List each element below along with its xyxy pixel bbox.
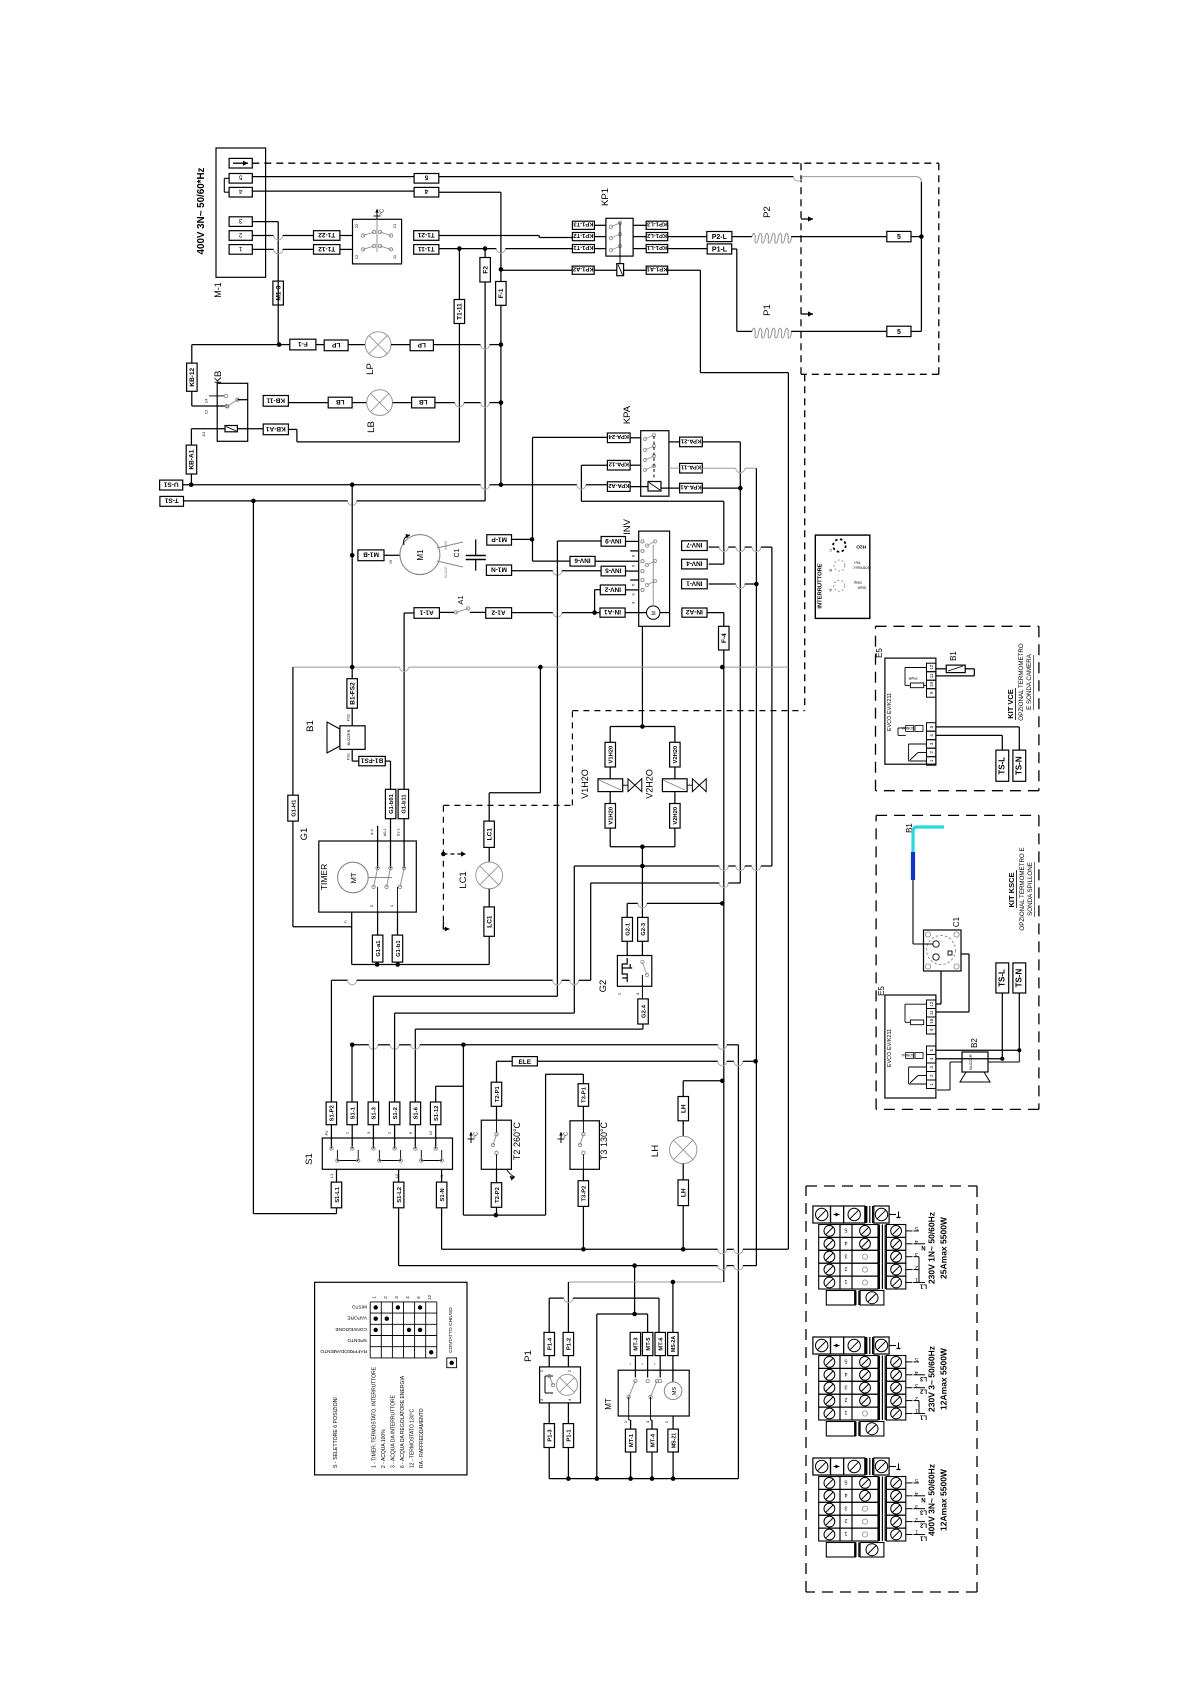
- svg-text:S - SELETTORE 6 POSIZIONI: S - SELETTORE 6 POSIZIONI: [333, 1397, 339, 1468]
- svg-text:OPZIONAL TERMOMETRO: OPZIONAL TERMOMETRO: [1018, 643, 1025, 721]
- svg-text:400V 3N~ 50/60Hz: 400V 3N~ 50/60Hz: [927, 1464, 937, 1536]
- svg-text:EVCO EV/K211: EVCO EV/K211: [887, 1029, 893, 1067]
- svg-text:MS: MS: [672, 1387, 678, 1396]
- svg-text:4: 4: [915, 1490, 918, 1496]
- svg-text:C1: C1: [454, 548, 461, 557]
- svg-text:°C: °C: [474, 1132, 480, 1138]
- svg-text:12: 12: [427, 1295, 432, 1301]
- svg-text:3: 3: [239, 217, 243, 224]
- svg-text:F2: F2: [482, 266, 489, 274]
- svg-text:KP1: KP1: [600, 188, 611, 206]
- svg-text:N: N: [921, 1496, 925, 1502]
- svg-text:2: 2: [915, 1395, 918, 1401]
- svg-text:S1: S1: [304, 1153, 315, 1165]
- svg-text:5: 5: [239, 174, 243, 181]
- svg-text:B1-FS1: B1-FS1: [360, 757, 383, 764]
- svg-text:FS1: FS1: [346, 753, 350, 760]
- svg-text:2: 2: [239, 231, 243, 238]
- svg-text:4: 4: [844, 1239, 847, 1245]
- svg-text:M-1: M-1: [213, 282, 223, 298]
- svg-text:TS-N: TS-N: [1015, 756, 1024, 775]
- svg-text:1: 1: [915, 1529, 918, 1535]
- svg-text:12: 12: [428, 1130, 433, 1135]
- svg-text:21: 21: [392, 223, 397, 228]
- svg-text:100%sec: 100%sec: [853, 566, 869, 571]
- svg-text:b0-1: b0-1: [383, 828, 387, 836]
- svg-text:KP1-L3: KP1-L3: [646, 221, 667, 227]
- svg-text:U-S1: U-S1: [163, 480, 178, 487]
- svg-text:KP1-L1: KP1-L1: [646, 244, 667, 250]
- svg-text:G2: G2: [598, 980, 609, 993]
- svg-text:3: 3: [915, 1382, 918, 1388]
- svg-text:INV-9: INV-9: [605, 537, 622, 544]
- svg-text:11: 11: [929, 673, 934, 678]
- svg-text:S1-12: S1-12: [434, 1106, 440, 1121]
- svg-text:3: 3: [844, 1504, 847, 1510]
- svg-text:CONTATTO CHIUSO: CONTATTO CHIUSO: [448, 1307, 454, 1353]
- svg-text:5: 5: [844, 1227, 847, 1233]
- svg-text:ELE: ELE: [518, 1059, 531, 1066]
- svg-text:12: 12: [203, 409, 208, 414]
- svg-text:12Amax 5500W: 12Amax 5500W: [939, 1468, 949, 1531]
- svg-text:P1-2: P1-2: [567, 1338, 573, 1350]
- svg-text:B2: B2: [970, 1038, 979, 1048]
- svg-text:T1-21: T1-21: [417, 231, 434, 238]
- svg-text:KB-A1: KB-A1: [189, 449, 196, 469]
- svg-text:MT: MT: [349, 872, 358, 883]
- svg-text:CONVEZIONE: CONVEZIONE: [335, 1326, 367, 1332]
- svg-text:Tan: Tan: [854, 561, 860, 566]
- svg-text:F-4: F-4: [721, 633, 728, 643]
- svg-text:KB-11: KB-11: [266, 396, 285, 403]
- svg-text:INV-1: INV-1: [686, 579, 703, 586]
- svg-text:T3 130°C: T3 130°C: [599, 1121, 609, 1160]
- svg-text:T2 260°C: T2 260°C: [512, 1121, 522, 1160]
- svg-text:G1: G1: [299, 828, 310, 841]
- svg-text:LP: LP: [365, 363, 376, 375]
- svg-text:S1-3: S1-3: [372, 1106, 378, 1119]
- svg-text:1: 1: [844, 1409, 847, 1415]
- svg-text:P1-1: P1-1: [567, 1429, 573, 1442]
- svg-text:°C: °C: [564, 1132, 570, 1138]
- svg-text:S1-L2: S1-L2: [397, 1187, 403, 1203]
- svg-text:MT-4: MT-4: [650, 1433, 656, 1447]
- svg-text:RA - RAFFREDDAMENTO: RA - RAFFREDDAMENTO: [419, 1408, 425, 1468]
- svg-text:KPA-12: KPA-12: [609, 461, 629, 467]
- svg-text:KP1-T3: KP1-T3: [573, 221, 594, 227]
- svg-text:TS-N: TS-N: [1015, 968, 1024, 987]
- svg-text:MS-2A: MS-2A: [671, 1336, 677, 1352]
- svg-text:A: A: [829, 588, 832, 593]
- svg-text:S1-P2: S1-P2: [330, 1105, 336, 1121]
- svg-text:PWR: PWR: [908, 676, 917, 680]
- svg-text:G2-1: G2-1: [626, 922, 632, 936]
- svg-text:5: 5: [844, 1479, 847, 1485]
- svg-text:P1: P1: [523, 1350, 534, 1362]
- svg-text:V1H2O: V1H2O: [580, 769, 590, 799]
- svg-text:KP1-T2: KP1-T2: [573, 232, 593, 238]
- svg-text:12: 12: [929, 664, 934, 670]
- svg-text:T3-P2: T3-P2: [582, 1186, 588, 1202]
- svg-text:V2H20: V2H20: [673, 746, 679, 764]
- svg-text:KPA-11: KPA-11: [680, 464, 701, 470]
- svg-text:B1: B1: [305, 720, 316, 732]
- svg-text:INV-6: INV-6: [574, 557, 591, 564]
- svg-text:MISTO: MISTO: [352, 1303, 367, 1309]
- svg-text:P2: P2: [762, 206, 773, 218]
- svg-text:P1-4: P1-4: [548, 1337, 554, 1350]
- svg-text:KPA-24: KPA-24: [608, 433, 629, 439]
- svg-text:SPENTO: SPENTO: [347, 1337, 367, 1343]
- svg-text:10: 10: [929, 681, 934, 687]
- svg-text:KPA: KPA: [622, 405, 633, 424]
- svg-text:C: C: [829, 548, 832, 553]
- svg-text:M1: M1: [416, 549, 425, 561]
- svg-text:BUZZER: BUZZER: [969, 1054, 973, 1069]
- svg-text:LH: LH: [681, 1104, 688, 1113]
- svg-text:4: 4: [844, 1370, 847, 1376]
- svg-text:V2H2O: V2H2O: [645, 769, 655, 799]
- svg-text:P2-L: P2-L: [712, 234, 728, 241]
- svg-text:S1-2: S1-2: [393, 1107, 399, 1119]
- svg-text:INV-2: INV-2: [604, 585, 621, 592]
- svg-text:T1-22: T1-22: [318, 231, 335, 238]
- svg-text:°C: °C: [380, 209, 386, 215]
- svg-text:G1-a1: G1-a1: [376, 940, 382, 957]
- svg-text:5: 5: [915, 1477, 918, 1483]
- svg-text:2 - ACQUA 100%: 2 - ACQUA 100%: [381, 1429, 387, 1468]
- svg-text:10: 10: [929, 1018, 934, 1024]
- svg-text:4: 4: [915, 1238, 918, 1244]
- svg-text:5: 5: [424, 174, 428, 181]
- svg-text:M1-B: M1-B: [363, 551, 379, 558]
- svg-text:FS2: FS2: [346, 714, 350, 721]
- svg-text:INV-5: INV-5: [605, 567, 622, 574]
- svg-text:L1: L1: [329, 1173, 334, 1178]
- svg-text:V1H20: V1H20: [609, 807, 615, 825]
- svg-text:22: 22: [354, 223, 359, 228]
- svg-text:MT: MT: [604, 1398, 613, 1410]
- svg-text:MT-1: MT-1: [629, 1433, 635, 1447]
- svg-text:Stop: Stop: [853, 581, 862, 586]
- svg-text:T1-11: T1-11: [418, 245, 435, 252]
- svg-text:L1: L1: [919, 1414, 927, 1420]
- svg-text:1: 1: [844, 1278, 847, 1284]
- svg-text:400V 3N~ 50/60*Hz: 400V 3N~ 50/60*Hz: [196, 167, 207, 254]
- svg-text:S1-6: S1-6: [414, 1106, 420, 1119]
- svg-text:LC1: LC1: [458, 871, 469, 888]
- svg-text:4: 4: [844, 1491, 847, 1497]
- svg-text:M: M: [388, 560, 393, 563]
- svg-text:LC1: LC1: [487, 915, 494, 928]
- svg-text:KB-A1: KB-A1: [265, 425, 285, 432]
- svg-text:INV-4: INV-4: [686, 560, 703, 567]
- svg-text:3: 3: [844, 1383, 847, 1389]
- svg-text:KP1-T1: KP1-T1: [573, 244, 594, 250]
- svg-text:SONDA: SONDA: [901, 1053, 914, 1057]
- svg-text:KB-12: KB-12: [189, 367, 196, 386]
- svg-text:14: 14: [203, 398, 208, 403]
- svg-text:S1-N: S1-N: [440, 1188, 446, 1201]
- svg-text:2: 2: [915, 1516, 918, 1522]
- svg-text:LP: LP: [417, 341, 426, 348]
- svg-text:P2: P2: [324, 1130, 329, 1136]
- svg-text:E5: E5: [877, 986, 886, 996]
- svg-text:OPZIONAL TERMOMETRO E: OPZIONAL TERMOMETRO E: [1019, 847, 1026, 930]
- svg-text:F-1: F-1: [298, 340, 308, 347]
- svg-text:IN-A2: IN-A2: [686, 608, 703, 615]
- svg-text:B: B: [829, 568, 832, 573]
- svg-text:S1-1: S1-1: [351, 1106, 357, 1119]
- svg-text:T2-P1: T2-P1: [495, 1086, 501, 1103]
- svg-text:12: 12: [929, 1001, 934, 1007]
- svg-text:4: 4: [239, 188, 243, 195]
- svg-text:LC1: LC1: [487, 828, 494, 841]
- svg-text:MS-21: MS-21: [671, 1433, 677, 1448]
- svg-text:KB: KB: [213, 371, 224, 384]
- svg-text:INV-7: INV-7: [686, 541, 703, 548]
- svg-text:A1: A1: [456, 595, 465, 604]
- svg-text:3 - ACQUA DA INTERRUTTORE: 3 - ACQUA DA INTERRUTTORE: [390, 1394, 396, 1468]
- svg-text:2: 2: [844, 1517, 847, 1523]
- svg-text:TS-L: TS-L: [998, 969, 1007, 987]
- svg-text:M1-3: M1-3: [276, 285, 283, 300]
- svg-text:11: 11: [929, 1010, 934, 1015]
- svg-text:H2O: H2O: [856, 544, 866, 550]
- svg-text:KIT KSCE: KIT KSCE: [1007, 872, 1016, 907]
- svg-text:BUZZER: BUZZER: [346, 729, 351, 745]
- svg-text:TS-L: TS-L: [998, 757, 1007, 775]
- svg-text:EVCO EV/K211: EVCO EV/K211: [887, 693, 893, 731]
- svg-text:BLACK: BLACK: [444, 566, 448, 578]
- svg-text:n: n: [343, 920, 348, 922]
- svg-text:V1H20: V1H20: [609, 746, 615, 764]
- svg-text:MT-5: MT-5: [646, 1337, 652, 1351]
- svg-text:5: 5: [897, 234, 901, 241]
- svg-text:G1-b1: G1-b1: [396, 940, 402, 957]
- svg-text:LH: LH: [681, 1188, 688, 1197]
- svg-text:G2-3: G2-3: [641, 922, 647, 936]
- svg-text:S1-L1: S1-L1: [335, 1186, 341, 1203]
- svg-text:5: 5: [897, 329, 901, 336]
- svg-text:BLUE: BLUE: [444, 540, 448, 550]
- svg-text:6 - ACQUA DA REGOLATORE ENERGI: 6 - ACQUA DA REGOLATORE ENERGIA: [400, 1375, 406, 1468]
- svg-text:T3-P1: T3-P1: [582, 1086, 588, 1103]
- svg-text:M1-P: M1-P: [491, 535, 507, 542]
- svg-text:1: 1: [915, 1277, 918, 1283]
- svg-text:3: 3: [915, 1251, 918, 1257]
- svg-text:1: 1: [844, 1530, 847, 1536]
- svg-text:INV: INV: [622, 518, 633, 535]
- svg-text:KPA-21: KPA-21: [680, 437, 701, 443]
- svg-text:P1-L: P1-L: [712, 247, 728, 254]
- svg-text:M: M: [652, 611, 658, 615]
- svg-text:G1-b01: G1-b01: [389, 793, 395, 813]
- svg-text:C1: C1: [952, 916, 961, 927]
- svg-text:b1-1: b1-1: [397, 828, 401, 836]
- svg-text:B1: B1: [949, 651, 958, 661]
- svg-text:IN-A1: IN-A1: [604, 608, 621, 615]
- svg-text:LB: LB: [336, 398, 345, 405]
- svg-text:LH: LH: [650, 1145, 661, 1157]
- svg-text:INTERRUTTORE: INTERRUTTORE: [817, 563, 823, 608]
- svg-text:5: 5: [915, 1225, 918, 1231]
- svg-text:E SONDA CAMERA: E SONDA CAMERA: [1026, 653, 1033, 710]
- svg-text:KIT VCE: KIT VCE: [1006, 689, 1015, 719]
- svg-text:T-S1: T-S1: [164, 497, 178, 504]
- svg-text:SONDA SPILLONE: SONDA SPILLONE: [1027, 862, 1034, 916]
- svg-text:a-4: a-4: [370, 829, 374, 835]
- svg-text:KP1-L2: KP1-L2: [647, 232, 667, 238]
- svg-text:1: 1: [239, 245, 243, 252]
- svg-text:12Amax 5500W: 12Amax 5500W: [939, 1347, 949, 1410]
- svg-text:N: N: [921, 1244, 925, 1250]
- svg-text:TIMER: TIMER: [319, 864, 329, 890]
- svg-text:V2H20: V2H20: [673, 807, 679, 825]
- svg-text:LP: LP: [331, 341, 340, 348]
- svg-text:A1-1: A1-1: [419, 608, 433, 615]
- svg-text:G2-4: G2-4: [641, 1004, 647, 1018]
- svg-text:4: 4: [915, 1369, 918, 1375]
- svg-text:T2-P2: T2-P2: [495, 1187, 501, 1203]
- svg-text:3: 3: [844, 1252, 847, 1258]
- svg-text:B1-FS2: B1-FS2: [350, 682, 357, 705]
- svg-text:~: ~: [675, 1394, 681, 1397]
- svg-text:2: 2: [844, 1265, 847, 1271]
- svg-text:LB: LB: [419, 398, 428, 405]
- svg-text:G1-H1: G1-H1: [291, 799, 297, 817]
- svg-text:LB: LB: [366, 421, 377, 433]
- svg-text:12: 12: [354, 254, 359, 259]
- svg-text:KP1-A1: KP1-A1: [646, 266, 667, 272]
- svg-text:RAFFREDDAMENTO: RAFFREDDAMENTO: [320, 1348, 367, 1354]
- svg-text:230V 3~ 50/60Hz: 230V 3~ 50/60Hz: [927, 1346, 937, 1412]
- svg-text:5: 5: [844, 1358, 847, 1364]
- svg-text:P1-3: P1-3: [548, 1429, 554, 1442]
- svg-text:E5: E5: [875, 648, 884, 658]
- svg-text:KPA-A1: KPA-A1: [680, 484, 702, 490]
- svg-text:P1: P1: [762, 304, 773, 316]
- svg-text:1: 1: [915, 1408, 918, 1414]
- svg-text:4: 4: [424, 188, 428, 195]
- svg-text:A1-2: A1-2: [491, 608, 505, 615]
- svg-text:3: 3: [915, 1503, 918, 1509]
- svg-text:2: 2: [844, 1396, 847, 1402]
- svg-text:G1-b11: G1-b11: [402, 794, 408, 814]
- svg-text:1 - TIMER, TERMOSTATO, INTERRU: 1 - TIMER, TERMOSTATO, INTERRUTTORE: [371, 1366, 377, 1468]
- svg-text:25Amax 5500W: 25Amax 5500W: [939, 1216, 949, 1279]
- svg-text:MT-3: MT-3: [634, 1337, 640, 1351]
- svg-text:T1-12: T1-12: [318, 245, 335, 252]
- svg-text:T1-11: T1-11: [457, 303, 464, 320]
- svg-text:VAPORE: VAPORE: [347, 1315, 367, 1321]
- svg-text:230V 1N~ 50/60Hz: 230V 1N~ 50/60Hz: [927, 1212, 937, 1284]
- svg-text:Start: Start: [857, 586, 866, 591]
- svg-text:KP1-A2: KP1-A2: [573, 266, 594, 272]
- svg-text:MT-6: MT-6: [659, 1337, 665, 1351]
- svg-text:F-1: F-1: [498, 288, 505, 298]
- svg-text:5: 5: [915, 1356, 918, 1362]
- svg-text:M1-N: M1-N: [491, 566, 507, 573]
- svg-text:KPA-A2: KPA-A2: [608, 482, 629, 488]
- svg-text:2: 2: [915, 1264, 918, 1270]
- svg-text:12 - TERMOSTATO 130°C: 12 - TERMOSTATO 130°C: [409, 1408, 415, 1468]
- svg-text:A1: A1: [201, 431, 206, 437]
